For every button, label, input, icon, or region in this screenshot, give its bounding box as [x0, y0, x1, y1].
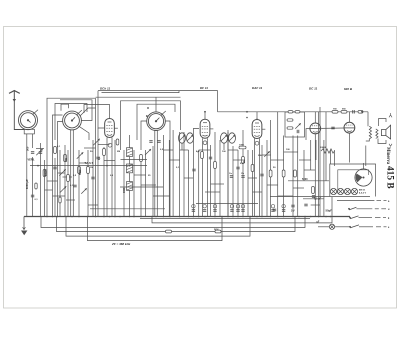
- cathode bead V3: [255, 141, 259, 145]
- wire link2: [63, 176, 73, 178]
- svg-text:300: 300: [65, 157, 68, 162]
- junction d28: [237, 216, 239, 218]
- label 0,1a: [98, 156, 101, 160]
- resistor R10: [251, 165, 254, 172]
- junction d29: [242, 216, 244, 218]
- wire L1a right: [32, 134, 34, 148]
- label 50000: [45, 169, 48, 176]
- wire mid v3: [152, 146, 154, 217]
- electrolytic mark 7: [271, 205, 274, 208]
- wire V4 grid lead: [306, 129, 310, 140]
- electrolytic mark 1: [192, 205, 195, 208]
- resistor R24: [67, 175, 70, 182]
- resistor R4: [78, 167, 81, 174]
- label TAST: [85, 161, 94, 165]
- wire mid v2: [133, 150, 135, 217]
- wire V2 grid: [193, 129, 199, 217]
- switch label 1: [388, 201, 390, 203]
- svg-text:5000: 5000: [79, 169, 82, 175]
- label s8: [286, 149, 290, 151]
- junction d10: [114, 216, 116, 218]
- junction d4: [71, 216, 73, 218]
- trimmer T11: [295, 123, 301, 129]
- dial lamp 1: [330, 188, 336, 194]
- wire shield corner 1: [53, 115, 63, 217]
- capacitor Ce8: [282, 210, 285, 212]
- wire V3 bottom: [254, 141, 256, 217]
- wire link16: [205, 191, 220, 193]
- wire v 228b: [227, 130, 229, 217]
- dial lamp 4: [351, 188, 357, 194]
- junction d24: [214, 216, 216, 218]
- junction d9: [109, 216, 111, 218]
- tuning coil L3: [147, 111, 166, 131]
- tube V2 DF11: [200, 118, 213, 141]
- junction d17: [163, 216, 165, 218]
- trimmer T3: [60, 186, 67, 193]
- label s2: [117, 151, 120, 153]
- switch arrow 1: [377, 199, 387, 201]
- label s7: [258, 155, 262, 157]
- junction d1: [52, 216, 54, 218]
- wire link x1: [58, 172, 66, 174]
- junction d27: [232, 216, 234, 218]
- junction d23: [204, 216, 206, 218]
- wire link30: [311, 204, 320, 206]
- capacitor C18: [31, 195, 34, 197]
- label DCh II: [100, 87, 110, 91]
- capacitor C19: [73, 185, 76, 187]
- wire h 1808: [288, 180, 329, 182]
- wire speaker top: [367, 112, 369, 126]
- label VERB: [28, 159, 36, 162]
- wire V4V5 link: [321, 127, 343, 129]
- wire link9: [141, 184, 156, 186]
- wire bus shadow: [140, 218, 310, 220]
- switch label 2: [388, 209, 390, 211]
- wire mid v1: [145, 150, 147, 217]
- label 300: [65, 157, 68, 162]
- capacitor C17: [331, 127, 334, 129]
- wire R4: [78, 150, 80, 217]
- capacitor 500pF: [31, 152, 34, 154]
- junction V2: [204, 111, 206, 113]
- wire v 184: [183, 132, 185, 217]
- trimmer T4: [145, 149, 151, 155]
- label EM11: [359, 190, 366, 192]
- junction d32: [261, 216, 263, 218]
- resistor R6: [140, 155, 143, 162]
- wire v 220: [219, 140, 221, 217]
- tube V5 620B: [344, 122, 355, 133]
- wire link21: [253, 191, 263, 193]
- wire mid v4: [162, 135, 164, 217]
- label s11: [241, 173, 245, 175]
- capacitor C13: [291, 205, 294, 207]
- tube V1 DCh11: [105, 117, 118, 140]
- wire V3 top: [256, 112, 258, 120]
- wire vd5: [92, 140, 94, 217]
- capacitor C8: [192, 169, 195, 171]
- wire vd4: [87, 150, 89, 217]
- label DF11: [200, 86, 208, 90]
- label s6: [240, 163, 244, 165]
- wire big box top: [96, 96, 181, 98]
- svg-text:3000: 3000: [123, 187, 126, 193]
- wire link27: [293, 187, 304, 189]
- capacitor C20: [91, 177, 94, 179]
- junction d21: [193, 216, 195, 218]
- wire L1a left: [26, 134, 28, 217]
- label 50uF: [317, 221, 320, 223]
- junction d13: [133, 216, 135, 218]
- speaker LS: [378, 113, 392, 146]
- capacitor C2: [39, 152, 42, 154]
- wire v 238: [237, 150, 239, 217]
- label 950: [342, 109, 346, 111]
- wire link x5: [45, 189, 53, 191]
- oscillator coil Lc: [127, 182, 133, 191]
- wire bottom 5: [88, 217, 223, 241]
- resistor R29: [215, 230, 221, 233]
- wire link24: [271, 159, 284, 161]
- label s5: [222, 151, 226, 153]
- trimmer T9: [221, 135, 228, 142]
- wire v 320: [319, 107, 321, 217]
- wire link5: [98, 144, 110, 146]
- wire link28: [299, 159, 311, 161]
- label s4: [196, 151, 200, 153]
- wire link x3: [79, 162, 88, 164]
- resistor R16: [312, 187, 315, 194]
- junction d3: [65, 216, 67, 218]
- junction d35: [283, 216, 285, 218]
- wire link4: [84, 147, 96, 149]
- wire antenna lead: [14, 99, 24, 130]
- junction d37: [298, 216, 300, 218]
- resistor R21 zigzag: [321, 149, 335, 153]
- wire V2 top: [204, 112, 206, 118]
- wire box C: [121, 101, 181, 150]
- resistor R5: [103, 149, 106, 156]
- wire link23: [267, 184, 278, 186]
- wire link x2: [66, 199, 75, 201]
- label s0: [57, 146, 61, 148]
- label s1: [90, 151, 93, 153]
- wire OT left: [366, 139, 370, 141]
- capacitor Ca: [230, 176, 233, 178]
- capacitor C12: [273, 209, 276, 211]
- label s15: [70, 185, 74, 187]
- svg-text:DF 11: DF 11: [200, 86, 208, 90]
- junction d31: [256, 216, 258, 218]
- wire main earth bus: [24, 216, 350, 218]
- wire L3 bottom b: [156, 130, 158, 216]
- wire osc stack2: [129, 157, 131, 165]
- wire link7: [121, 159, 148, 161]
- wire heater h: [196, 203, 258, 205]
- label 0_1b: [35, 199, 39, 201]
- wire v 252: [252, 150, 254, 217]
- wire bottom 2: [41, 217, 305, 228]
- wire link25: [278, 195, 293, 197]
- switch label 3: [388, 218, 390, 220]
- eye box: [330, 164, 376, 197]
- resistor R2: [54, 147, 57, 154]
- resistor R27: [116, 139, 119, 145]
- capacitor C3: [53, 167, 56, 169]
- wire box B: [55, 104, 87, 141]
- wire V4 bottom: [314, 134, 316, 217]
- junction d40: [318, 216, 320, 218]
- wire v 316: [315, 140, 317, 160]
- wire link6: [104, 160, 115, 162]
- wire lamp bus: [270, 196, 370, 198]
- wire L3 right lead: [166, 121, 171, 217]
- wire link14: [184, 177, 193, 179]
- wire V2 bottom b: [207, 140, 209, 216]
- resistor R18b: [288, 111, 293, 113]
- svg-text:10000: 10000: [320, 147, 327, 149]
- junction d30: [249, 216, 251, 218]
- resistor R18: [332, 111, 338, 114]
- capacitor Ce3: [213, 210, 216, 212]
- junction V3: [246, 111, 248, 118]
- svg-text:DC 11: DC 11: [309, 87, 318, 91]
- wire L2 diag up: [80, 108, 96, 116]
- IF can 1: [179, 133, 194, 143]
- wire v 233: [232, 146, 234, 217]
- svg-text:DAF 11: DAF 11: [252, 86, 262, 90]
- switch blade 3: [349, 216, 386, 219]
- resistor R19: [341, 111, 347, 114]
- wire v 304b: [303, 150, 305, 181]
- resistor R3: [64, 155, 67, 162]
- wire L2 diag dn: [79, 126, 90, 140]
- capacitor C11: [297, 130, 299, 133]
- corner tab L2: [61, 104, 69, 111]
- wire link x4: [88, 204, 98, 206]
- junction d5: [78, 216, 80, 218]
- wire L3 bottom: [154, 130, 156, 216]
- tuning coil L2: [63, 110, 82, 130]
- wire R6 drop: [140, 162, 142, 217]
- label ZF: [111, 242, 131, 246]
- wire box D: [137, 104, 175, 140]
- wire v 243: [242, 130, 244, 217]
- capacitor C6: [157, 141, 160, 143]
- capacitor Ce1: [192, 210, 195, 212]
- junction d20: [188, 216, 190, 218]
- resistor R14: [282, 170, 285, 177]
- wire V1 bottom b: [111, 140, 113, 217]
- wire V3 bottom b: [259, 141, 261, 217]
- trimmer T7: [179, 135, 186, 142]
- junction c: [129, 165, 131, 167]
- wire osc stack: [129, 135, 131, 148]
- junction d25: [221, 216, 223, 218]
- junction d22: [198, 216, 200, 218]
- wire T9 drop: [223, 143, 225, 150]
- trimmer T2: [59, 169, 66, 176]
- oscillator coil Lb: [127, 164, 133, 173]
- label s20: [73, 175, 77, 177]
- junction d7: [95, 216, 97, 218]
- svg-text:2M: 2M: [117, 151, 120, 153]
- label 415B: [384, 166, 394, 189]
- svg-text:620 B: 620 B: [344, 87, 353, 91]
- label s12: [176, 167, 180, 169]
- electrolytic mark 8: [282, 205, 285, 208]
- capacitor Ce2: [203, 210, 206, 212]
- junction d6: [87, 216, 89, 218]
- oscillator coil La: [127, 148, 133, 157]
- wire L3 top: [155, 97, 157, 112]
- label 50uFb: [326, 208, 333, 212]
- svg-text:1000 pF: 1000 pF: [25, 179, 29, 189]
- capacitor Ce7: [271, 210, 274, 212]
- wire v 188: [188, 150, 190, 217]
- wire v 267: [266, 140, 268, 217]
- wire L2 bottom lead b: [72, 130, 74, 217]
- capacitor C14: [312, 196, 315, 198]
- resistor R22: [239, 146, 246, 149]
- label s14: [110, 175, 114, 177]
- capacitor C9: [236, 167, 239, 169]
- wire link1: [47, 180, 58, 182]
- junction d36: [292, 216, 294, 218]
- wire long h 187: [120, 186, 163, 188]
- wire v 262: [261, 145, 263, 217]
- wire vd2: [123, 150, 125, 217]
- junction d26: [227, 216, 229, 218]
- wire switch row1: [337, 199, 374, 201]
- label 0,1uF: [314, 198, 322, 201]
- junction L3a: [146, 115, 148, 117]
- wire v 179: [179, 132, 181, 217]
- label s10: [229, 173, 233, 175]
- wire osc stack3: [129, 173, 131, 182]
- junction d42: [330, 216, 332, 218]
- junction b: [106, 165, 108, 167]
- wire osc stack4: [129, 190, 131, 216]
- resistor R28: [166, 230, 172, 233]
- trimmer T6: [93, 139, 100, 146]
- label 1M: [243, 160, 246, 163]
- svg-text:EM 11: EM 11: [359, 190, 366, 192]
- wire switch row4: [335, 226, 350, 228]
- wire V5 top: [348, 112, 350, 123]
- wire link12: [180, 149, 189, 151]
- label Minerva: [385, 147, 390, 165]
- resistor R20: [358, 111, 363, 114]
- junction d38: [304, 216, 306, 218]
- capacitor C15: [304, 204, 307, 206]
- capacitor Ce4: [230, 210, 233, 212]
- wire V1 bottom: [106, 140, 108, 217]
- wire link22: [262, 154, 271, 156]
- wire link0: [36, 148, 44, 150]
- wire v 215: [214, 132, 216, 217]
- wire big box top: [95, 98, 97, 216]
- switch blade 2: [348, 207, 386, 210]
- svg-text:VERB.: VERB.: [28, 159, 36, 162]
- junction d19: [179, 216, 181, 218]
- wire band switch line: [30, 165, 147, 167]
- network box: [285, 112, 305, 137]
- antenna: [9, 91, 20, 102]
- wire bottom 3: [57, 217, 296, 232]
- electrolytic mark 5: [236, 205, 239, 208]
- wire top rail 1: [98, 91, 218, 112]
- label 3V: [291, 210, 295, 213]
- resistor R15: [294, 170, 297, 177]
- wire V1 anode top: [84, 105, 110, 118]
- capacitor C4: [96, 157, 99, 159]
- svg-text:1M: 1M: [243, 160, 246, 163]
- svg-text:1M: 1M: [90, 167, 93, 169]
- resistor R1: [43, 170, 46, 177]
- trimmer T5: [77, 152, 84, 159]
- capacitor Ce5: [236, 210, 239, 212]
- wire link29: [304, 169, 315, 171]
- electrolytic mark 4: [230, 205, 233, 208]
- wire link11: [163, 149, 173, 151]
- wire V1 aux: [103, 147, 105, 217]
- svg-text:50µF: 50µF: [326, 208, 333, 212]
- wire v 169: [168, 140, 170, 217]
- wire T7 drop: [181, 143, 183, 150]
- capacitor C10: [260, 174, 263, 176]
- wire link19: [233, 159, 243, 161]
- trimmer T8: [187, 135, 194, 142]
- svg-text:4-6,3 V: 4-6,3 V: [359, 191, 367, 194]
- resistor R11: [287, 119, 293, 121]
- svg-text:415 B: 415 B: [384, 166, 394, 189]
- junction d15: [151, 216, 153, 218]
- wire V5 bottom: [348, 133, 350, 162]
- wire v 326: [325, 112, 327, 181]
- label 10000: [320, 147, 327, 149]
- wire switch row4 left: [318, 226, 329, 228]
- switch blade 4: [349, 225, 386, 228]
- capacitor Ce6: [241, 210, 244, 212]
- cathode bead V1: [108, 143, 112, 147]
- junction d39: [310, 216, 312, 218]
- wire V2 bottom: [202, 140, 204, 216]
- wire h 1988: [303, 198, 324, 200]
- wire v 173: [172, 130, 174, 217]
- label 620B: [344, 87, 353, 91]
- wire eye feed2: [365, 146, 367, 167]
- wire vd6: [67, 150, 69, 217]
- trimmer T1: [36, 149, 43, 156]
- wire v 270: [270, 120, 272, 217]
- wire link13: [169, 159, 179, 161]
- magic eye EM11: [355, 163, 372, 186]
- svg-text:DCh 11: DCh 11: [100, 87, 110, 91]
- wire R1: [44, 160, 46, 217]
- resistor R23: [35, 183, 37, 189]
- wire C3: [54, 158, 56, 217]
- wire vd0: [323, 140, 325, 217]
- wire L2 right lead: [60, 100, 92, 121]
- capacitor C7: [209, 157, 212, 159]
- wire v 248: [247, 150, 249, 217]
- junction d34: [277, 216, 279, 218]
- resistor R26: [59, 197, 61, 203]
- wire link15: [199, 149, 211, 151]
